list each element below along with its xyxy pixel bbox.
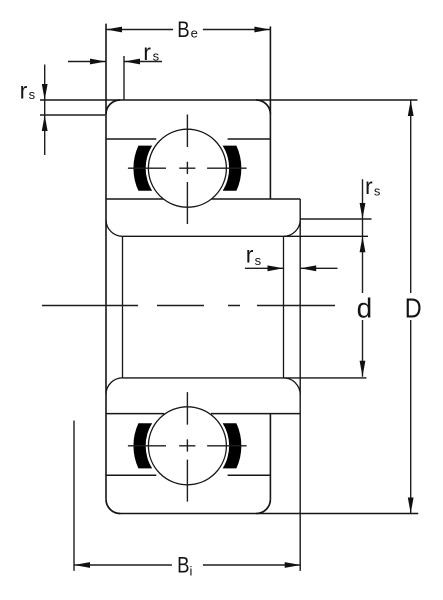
- svg-text:s: s: [29, 87, 36, 102]
- dimension line Bi: [74, 564, 301, 566]
- svg-text:r: r: [246, 242, 254, 268]
- corner arc bottom-right: [256, 499, 270, 513]
- inner ring bottom face line: [106, 413, 300, 415]
- bore bottom surface with d extension: [123, 377, 367, 379]
- seal top-left: [133, 146, 152, 191]
- ball top: [148, 129, 226, 207]
- seal bottom-right: [223, 423, 242, 468]
- inner ring top face line: [106, 198, 300, 200]
- bore chamfer edge left: [122, 236, 124, 378]
- extension line Bi left: [73, 421, 75, 571]
- arrow rs middle pointing left: [300, 265, 316, 271]
- svg-text:B: B: [177, 17, 189, 42]
- dimension line rs right and d: [362, 179, 364, 376]
- dimension line D: [410, 101, 412, 514]
- svg-text:r: r: [143, 39, 151, 65]
- svg-text:e: e: [191, 26, 198, 41]
- seal top-right: [223, 146, 242, 191]
- dimension line rs top: [68, 61, 162, 63]
- crosshair top ball horizontal: [128, 167, 247, 169]
- crosshair top ball vertical: [186, 115, 188, 225]
- arrow Bi left: [74, 562, 90, 568]
- corner arc top-right: [256, 100, 270, 114]
- arrow rs right pointing down: [360, 203, 366, 219]
- dimension line rs middle: [245, 267, 338, 269]
- ball bottom: [148, 407, 226, 485]
- outer ring right face bottom: [269, 414, 271, 500]
- arrow rs middle pointing right: [268, 265, 284, 271]
- outer raceway line bottom: [106, 474, 270, 476]
- crosshair bottom ball horizontal: [128, 445, 247, 447]
- svg-text:d: d: [357, 293, 373, 324]
- bore chamfer arc bottom-right: [284, 378, 301, 395]
- svg-text:D: D: [405, 293, 422, 324]
- bore chamfer arc bottom-left: [106, 378, 123, 395]
- left face line: [105, 24, 107, 500]
- extension line rs top: [123, 56, 125, 100]
- outer raceway line top: [106, 138, 270, 140]
- svg-text:s: s: [374, 184, 381, 199]
- extension line rs right: [300, 218, 371, 220]
- arrow rs left pointing down: [42, 84, 48, 100]
- corner arc top-left: [106, 100, 120, 114]
- arrow d top pointing up: [360, 236, 366, 252]
- axis center line: [42, 305, 335, 307]
- svg-text:r: r: [365, 173, 373, 199]
- bore chamfer edge right: [283, 236, 285, 378]
- arrow Be right: [254, 27, 270, 33]
- svg-text:s: s: [153, 49, 160, 64]
- outer ring top edge with extension lines: [40, 99, 418, 101]
- svg-text:s: s: [255, 253, 262, 268]
- arrow rs top pointing right: [90, 59, 106, 65]
- bearing bottom edge with extension line: [119, 513, 419, 515]
- bore chamfer arc top-left: [106, 220, 123, 237]
- bore top surface with d extension: [123, 235, 369, 237]
- arrow Bi right: [285, 562, 301, 568]
- dimension line Be: [106, 29, 270, 31]
- inner ring right face with Bi extension: [299, 199, 301, 571]
- arrow Be left: [106, 27, 122, 33]
- svg-text:r: r: [20, 77, 28, 103]
- arrow rs top pointing left: [124, 59, 140, 65]
- svg-text:i: i: [190, 564, 193, 579]
- dimension line rs left vertical: [44, 65, 46, 156]
- outer ring right face top: [269, 26, 271, 199]
- arrow D top pointing up: [408, 100, 414, 116]
- corner arc bottom-left: [106, 499, 120, 513]
- svg-text:B: B: [177, 552, 189, 577]
- crosshair bottom ball vertical: [186, 392, 188, 502]
- seal bottom-left: [133, 423, 152, 468]
- bore chamfer arc top-right: [284, 220, 301, 237]
- extension line rs left: [40, 114, 105, 116]
- arrow d bottom pointing down: [360, 361, 366, 377]
- arrow rs left pointing up: [42, 115, 48, 131]
- arrow D bottom pointing down: [408, 498, 414, 514]
